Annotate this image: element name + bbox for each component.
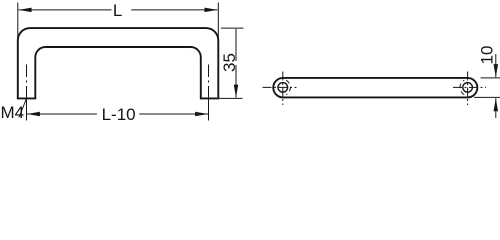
left leg bottom edge [17, 97, 36, 99]
dimension L extension line left [17, 3, 19, 47]
svg-text:10: 10 [477, 46, 496, 65]
dimension L extension line right [217, 3, 219, 47]
dimension 35 extension line bottom [219, 97, 242, 99]
handle inner contour [35, 47, 201, 98]
left leg centerline [26, 65, 28, 97]
dimension 10 lower arrow pointing up [495, 98, 497, 118]
dimension 10 upper arrow pointing down [495, 54, 497, 77]
dimension 35 extension line top [221, 27, 244, 29]
handle outer contour [18, 28, 219, 98]
right hole vertical centerline [467, 72, 469, 106]
left centerline extension below leg [26, 97, 28, 121]
dimension 35 line with arrows [235, 29, 237, 98]
right hole horizontal centerline [453, 86, 486, 88]
dimension L-10 line left segment with arrow [27, 113, 97, 115]
dimension L line left segment with arrow [19, 9, 112, 11]
left hole thread arc [286, 80, 290, 94]
right hole circle [463, 83, 473, 93]
svg-text:35: 35 [220, 53, 239, 72]
dimension L line right segment with arrow [131, 9, 217, 11]
dimension 10 extension line top [481, 77, 500, 79]
dimension 10 extension line bottom [474, 96, 500, 98]
M4 leader line [19, 99, 26, 118]
left hole vertical centerline [282, 72, 284, 106]
svg-text:L-10: L-10 [102, 105, 136, 124]
svg-text:L: L [113, 1, 122, 20]
right leg bottom edge [200, 97, 219, 99]
right hole thread arc [460, 80, 464, 94]
right leg centerline [208, 65, 210, 97]
left hole circle [278, 83, 288, 93]
dimension L-10 line right segment with arrow [139, 113, 208, 115]
right centerline extension below leg [208, 97, 210, 121]
side view bar outline [273, 78, 477, 98]
left hole horizontal centerline [263, 86, 297, 88]
